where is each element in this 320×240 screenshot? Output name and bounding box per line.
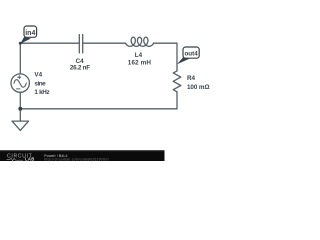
out4 flag box	[183, 47, 199, 58]
wire bottom: right corner to left junction	[20, 108, 177, 110]
wire: capacitor to inductor	[83, 42, 126, 44]
in4 flag pointer	[20, 36, 31, 44]
V4 sine wave	[14, 80, 26, 88]
in4 flag box	[24, 26, 37, 37]
wire: inductor to top-right corner and down to resistor	[153, 43, 177, 71]
svg-text:LAB: LAB	[25, 156, 35, 161]
inductor L4	[126, 37, 154, 46]
V4 minus sign	[17, 88, 20, 90]
node dot in4	[19, 42, 22, 45]
voltage source V4 circle	[11, 74, 29, 92]
footer black bar	[0, 150, 165, 161]
svg-text:sine: sine	[34, 81, 46, 88]
svg-text:1 kHz: 1 kHz	[34, 89, 49, 96]
ground triangle	[12, 121, 29, 130]
capacitor C4	[79, 35, 82, 53]
wire: V4 bottom to junction	[19, 92, 21, 109]
svg-text:100 mΩ: 100 mΩ	[187, 84, 210, 91]
svg-text:26.2 nF: 26.2 nF	[70, 65, 90, 72]
ground stem	[19, 109, 21, 121]
junction dot bottom-left	[18, 107, 22, 111]
V4 plus sign	[18, 76, 21, 79]
svg-text:V4: V4	[34, 72, 42, 79]
svg-text:162 mH: 162 mH	[128, 60, 152, 67]
wire: left vertical top segment (node to V4)	[19, 43, 21, 74]
resistor R4	[173, 71, 181, 92]
footer logo squiggle	[7, 158, 24, 161]
svg-text:in4: in4	[25, 30, 35, 37]
svg-text:R4: R4	[187, 75, 196, 82]
wire: resistor bottom down to corner	[176, 92, 178, 109]
wire top left: node to capacitor	[20, 42, 79, 44]
out4 flag pointer	[177, 57, 189, 65]
svg-text:out4: out4	[184, 50, 198, 57]
svg-text:L4: L4	[135, 52, 143, 59]
svg-text:http://circuitlab.com/c/ab6kj2: http://circuitlab.com/c/ab6kj26290m7/	[44, 157, 109, 161]
